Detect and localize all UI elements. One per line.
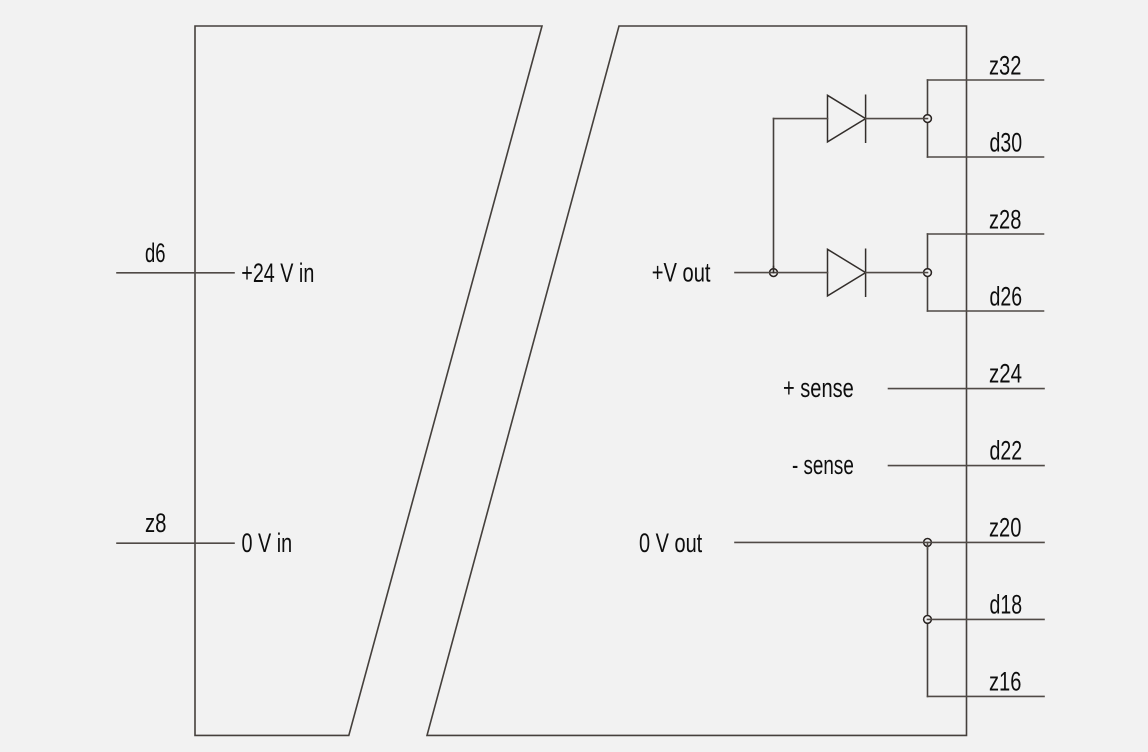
svg-text:+ sense: + sense [783, 373, 854, 403]
svg-text:0 V out: 0 V out [639, 528, 703, 558]
wire +V out through node A to diode V2 anode [735, 272, 828, 274]
connector module outline, left part [195, 26, 542, 735]
wire pin z16 [928, 695, 1045, 697]
diode V1 [828, 95, 866, 142]
wire diode V2 cathode to node C [866, 272, 928, 274]
wire pin d6 (+24 V in) [117, 272, 234, 274]
svg-text:d6: d6 [145, 238, 166, 268]
wire pin z24 (+ sense) [889, 388, 1045, 390]
connector module outline, right part [427, 26, 967, 735]
node E junction circle [924, 616, 932, 624]
wire diode V1 cathode to node B [866, 118, 928, 120]
wire pin z32 [928, 79, 1044, 81]
wire pin z20 (0 V out) through node D [735, 541, 1044, 543]
svg-text:- sense: - sense [792, 450, 854, 480]
node A junction circle [770, 269, 778, 277]
wire pin z28 [928, 233, 1044, 235]
node B junction circle [924, 115, 932, 123]
node D junction circle [924, 539, 932, 547]
svg-text:z8: z8 [145, 508, 167, 538]
svg-text:+24 V in: +24 V in [241, 258, 314, 288]
svg-text:z16: z16 [989, 667, 1021, 697]
wire bracket z32/d30 [927, 80, 929, 157]
svg-text:d26: d26 [990, 281, 1023, 311]
diode V2 [828, 249, 866, 296]
wire bracket z28/d26 [927, 234, 929, 311]
svg-text:d30: d30 [990, 127, 1023, 157]
svg-text:0 V in: 0 V in [242, 528, 293, 558]
svg-text:d22: d22 [990, 436, 1023, 466]
wire pin d18 from node E [928, 618, 1045, 620]
svg-text:+V out: +V out [652, 257, 711, 287]
wire pin z8 (0 V in) [117, 542, 234, 544]
svg-text:z20: z20 [989, 513, 1021, 543]
wire diode V1 anode [774, 118, 828, 120]
wire tick into node A from above [773, 267, 775, 273]
wire pin d22 (- sense) [889, 465, 1045, 467]
svg-text:d18: d18 [990, 590, 1023, 620]
wire pin d26 [928, 310, 1044, 312]
wire 0 V bus node D down to z16 [927, 542, 929, 696]
svg-text:z28: z28 [989, 204, 1021, 234]
wire pin d30 [928, 156, 1044, 158]
wire tick out of node D downward [927, 542, 929, 549]
svg-text:z24: z24 [989, 359, 1022, 389]
node C junction circle [924, 269, 932, 277]
wire node A up to diode V1 anode [773, 119, 775, 273]
svg-text:z32: z32 [989, 50, 1021, 80]
